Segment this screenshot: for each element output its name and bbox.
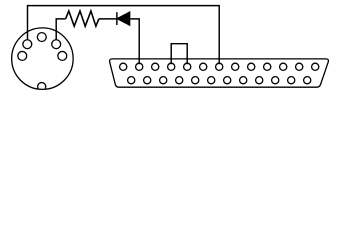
DB-25 pin 7 <box>216 63 223 70</box>
DB-25 pin 10 <box>264 63 271 70</box>
DIN pin 1 (upper-left) <box>23 40 32 49</box>
DB-25 pin 3 <box>152 63 159 70</box>
DB-25 pin 22 <box>256 77 263 84</box>
DB-25 pin 15 <box>144 77 151 84</box>
DB-25 pin 13 <box>312 63 319 70</box>
resistor R1 <box>66 11 99 26</box>
connector J1 DIN-5 shell <box>12 28 74 90</box>
DIN pin 5 (lower-right) <box>58 51 67 60</box>
DB-25 pin 1 <box>120 63 127 70</box>
DB-25 pin 2 <box>136 63 143 70</box>
diode D1 cathode bar <box>116 12 118 25</box>
DB-25 pin 14 <box>128 77 135 84</box>
DB-25 pin 8 <box>232 63 239 70</box>
DB-25 pin 25 <box>304 77 311 84</box>
wire from DIN pin 1 up, across top, down to DB-25 pin 7 <box>28 6 220 65</box>
DB-25 pin 24 <box>288 77 295 84</box>
DIN pin 3 (upper-right) <box>52 40 61 49</box>
DB-25 pin 4 <box>168 63 175 70</box>
connector J2 DB-25 shell <box>110 59 329 87</box>
DIN keying notch <box>38 83 46 89</box>
wire diode to DB-25 pin 2 <box>130 19 140 64</box>
DB-25 pin 12 <box>296 63 303 70</box>
DB-25 pin 18 <box>192 77 199 84</box>
jumper wire DB-25 pins 4-5 <box>171 44 187 64</box>
DB-25 pin 5 <box>184 63 191 70</box>
DB-25 pin 6 <box>200 63 207 70</box>
DB-25 pin 23 <box>272 77 279 84</box>
wire from DIN pin 3 up to resistor <box>56 19 65 40</box>
DB-25 pin 17 <box>176 77 183 84</box>
DIN pin 4 (lower-left) <box>18 51 27 60</box>
diode D1 triangle <box>117 12 129 25</box>
DB-25 pin 9 <box>248 63 255 70</box>
DB-25 pin 21 <box>240 77 247 84</box>
DB-25 pin 11 <box>280 63 287 70</box>
DB-25 pin 16 <box>160 77 167 84</box>
DB-25 pin 20 <box>224 77 231 84</box>
wire resistor to diode <box>99 18 117 20</box>
DB-25 pin 19 <box>208 77 215 84</box>
DIN pin 2 (top-center) <box>37 33 46 42</box>
